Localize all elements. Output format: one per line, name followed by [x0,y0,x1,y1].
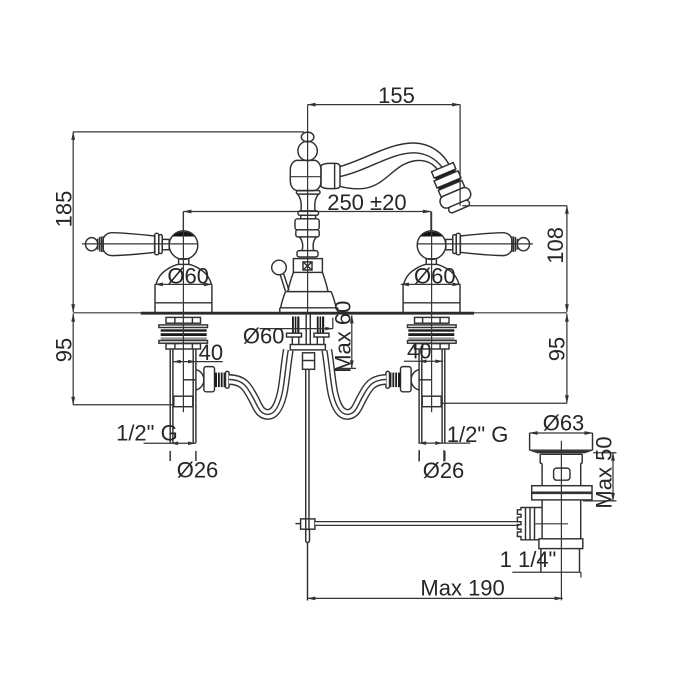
dimension 1 1/4" [500,547,581,577]
right handle centre line [431,212,433,413]
spout axis line [291,176,322,178]
pop-up lever [272,260,289,291]
svg-text:108: 108 [543,227,568,264]
horizontal linkage rod [315,521,519,526]
spout column center line [307,105,309,313]
shank side tee [183,367,229,392]
pop-up joint block [295,519,315,601]
coupling [174,396,193,407]
svg-text:Max 190: Max 190 [420,576,504,601]
svg-text:95: 95 [52,338,77,362]
svg-text:Ø60: Ø60 [243,324,285,349]
svg-text:Ø26: Ø26 [177,458,219,483]
drain body [532,463,592,538]
dimension 40 left [173,340,223,365]
left handle centre line [182,212,184,413]
lever end knob [86,238,98,251]
dimension 95 right [443,314,570,404]
dimension 1/2" G right [418,422,508,447]
svg-text:1/2" G: 1/2" G [447,422,509,447]
svg-text:Ø60: Ø60 [167,263,209,288]
spout aerator [428,161,475,216]
svg-text:1 1/4": 1 1/4" [500,547,557,572]
right handle group (mirror) [417,243,533,245]
rod axis inside drain [534,523,568,525]
supply hose right [327,350,386,414]
dimension Ø60 left bell [155,263,212,288]
left handle lever axis line [82,243,198,245]
spout ball finial top [298,132,317,160]
pop-up rod [306,369,309,519]
svg-text:155: 155 [378,83,415,108]
dimension 250 ±20 [183,190,431,232]
left handle group [86,231,230,461]
tailpiece lines [305,315,307,345]
dimension 155 [308,83,461,206]
joint neck [162,239,169,249]
drain centre line [560,441,562,601]
drain flange [530,433,593,463]
centre unit below deck [287,315,330,370]
stud washers [287,333,302,337]
joint ball [169,231,198,260]
svg-text:Ø63: Ø63 [543,411,585,436]
dimension Max 60 [331,301,356,373]
svg-text:Max 50: Max 50 [592,436,617,508]
svg-text:40: 40 [407,339,431,364]
deck line thick [141,312,474,315]
dimension 1/2" G left [116,421,196,446]
shank witness ticks [169,451,171,461]
centre bell base [280,272,338,312]
dimension Ø26 left [170,442,218,483]
bell base [155,264,212,312]
drain knurled nut [517,508,541,540]
svg-text:Ø60: Ø60 [414,263,456,288]
spout body [290,160,321,190]
svg-text:Ø26: Ø26 [423,458,465,483]
bracket bar [290,345,325,350]
threaded shank tube [170,349,196,461]
dimension 40 right [404,339,443,364]
svg-text:185: 185 [51,191,76,228]
collar rings [155,233,159,255]
deck extension line left [73,312,141,314]
spout tube curve [340,143,450,189]
below deck mounting stack [159,317,208,349]
dimension 108 right [462,206,567,313]
ball black cap [173,231,195,236]
dimension Ø60 centre [243,318,333,349]
svg-text:40: 40 [199,340,223,365]
svg-text:Max 60: Max 60 [331,301,356,373]
lever body [103,233,155,256]
dimension 95 left [52,314,174,405]
rod nut [303,353,315,370]
deck extension line right [474,312,567,314]
drain coupling [539,539,583,549]
dimension Max 50 [583,436,617,508]
svg-text:1/2" G: 1/2" G [116,421,178,446]
dimension Ø60 right bell [401,263,461,288]
svg-text:250 ±20: 250 ±20 [327,190,406,215]
drain tailpipe [541,549,580,573]
escutcheon block with pop-up knob [293,259,322,273]
svg-text:95: 95 [545,337,570,361]
spout connector [321,163,340,188]
column rings below body [295,191,320,258]
neck below ball [179,259,189,265]
threaded studs [292,317,299,333]
dimension Ø26 right [418,441,464,483]
dimension Ø63 [530,411,593,436]
supply hose left [229,350,288,414]
dimension Max 190 [307,576,562,601]
dimension 185 [51,132,304,312]
